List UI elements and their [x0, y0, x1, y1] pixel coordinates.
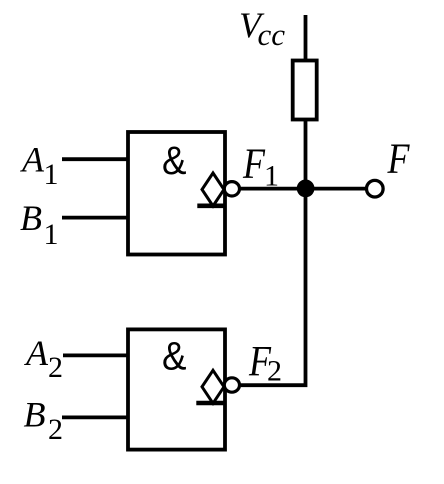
svg-text:F: F: [242, 141, 265, 188]
gate U1 open-collector underline: [197, 204, 225, 209]
svg-text:&: &: [162, 139, 187, 183]
svg-text:1: 1: [44, 158, 59, 191]
wire gate U1 input A1: [62, 157, 128, 161]
wire node to output terminal: [306, 187, 367, 191]
node junction dot: [297, 180, 315, 198]
gate U2 body (NAND, open-collector): [128, 329, 225, 449]
wire resistor to node: [304, 121, 308, 190]
gate U2 output bubble: [224, 378, 239, 392]
gate U2 open-collector diamond: [202, 370, 224, 403]
wire Vcc to resistor: [304, 15, 308, 60]
wire gate U2 input B2: [62, 415, 128, 419]
svg-text:F: F: [387, 136, 410, 183]
gate U1 output bubble: [224, 182, 239, 196]
svg-text:2: 2: [48, 413, 63, 446]
wire gate 1 output to node: [240, 187, 306, 191]
svg-text:A: A: [24, 333, 49, 373]
label F2: [248, 338, 282, 387]
label A2: [24, 333, 63, 384]
svg-text:cc: cc: [258, 17, 286, 52]
svg-text:2: 2: [267, 354, 282, 387]
wire gate U1 input B1: [62, 216, 128, 220]
output terminal F: [367, 180, 384, 197]
label Vcc: [239, 5, 285, 52]
resistor R (pull-up): [293, 61, 317, 120]
gate U1 body (NAND, open-collector): [128, 132, 225, 255]
label F1: [242, 141, 279, 193]
wire node down to F2 corner and to gate 2 output: [241, 189, 306, 386]
label A1: [20, 140, 59, 192]
gate U2 open-collector underline: [196, 401, 224, 406]
svg-text:B: B: [24, 394, 46, 434]
wire gate U2 input A2: [63, 353, 128, 357]
label B2: [24, 394, 64, 445]
svg-text:B: B: [20, 198, 42, 238]
svg-text:1: 1: [264, 159, 279, 192]
svg-text:1: 1: [44, 218, 59, 251]
svg-text:2: 2: [48, 351, 63, 384]
gate U1 open-collector diamond: [202, 173, 224, 206]
label B1: [20, 198, 59, 251]
svg-text:A: A: [20, 140, 45, 180]
svg-text:&: &: [162, 334, 187, 378]
